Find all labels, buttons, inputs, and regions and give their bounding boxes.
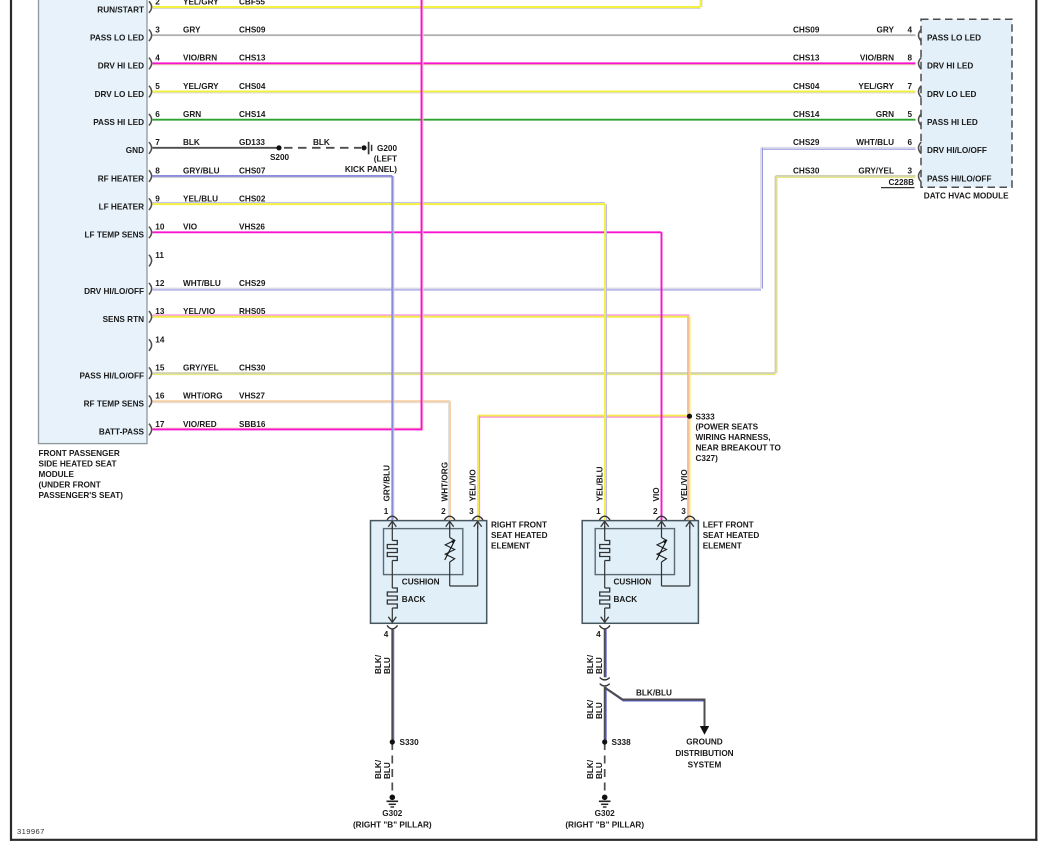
svg-text:BLU: BLU <box>383 657 392 674</box>
svg-text:RHS05: RHS05 <box>239 307 266 316</box>
svg-text:6: 6 <box>155 110 160 119</box>
svg-text:3: 3 <box>907 166 912 175</box>
svg-text:YEL/VIO: YEL/VIO <box>183 307 216 316</box>
svg-text:11: 11 <box>155 251 164 260</box>
svg-text:PASS LO LED: PASS LO LED <box>90 33 144 42</box>
svg-text:BLU: BLU <box>595 657 604 674</box>
svg-text:WHT/BLU: WHT/BLU <box>856 138 894 147</box>
svg-text:BLU: BLU <box>383 762 392 779</box>
svg-text:CHS30: CHS30 <box>239 363 266 372</box>
svg-text:VIO: VIO <box>183 223 198 232</box>
svg-text:CUSHION: CUSHION <box>614 577 652 586</box>
svg-text:VIO/RED: VIO/RED <box>183 420 217 429</box>
svg-text:YEL/BLU: YEL/BLU <box>595 466 604 501</box>
svg-text:GRY/BLU: GRY/BLU <box>383 465 392 502</box>
svg-text:3: 3 <box>469 507 474 516</box>
svg-text:WIRING HARNESS,: WIRING HARNESS, <box>696 433 771 442</box>
svg-text:16: 16 <box>155 392 165 401</box>
svg-text:C228B: C228B <box>889 178 915 187</box>
svg-text:4: 4 <box>907 26 912 35</box>
svg-text:BLK/: BLK/ <box>374 759 383 779</box>
svg-text:SIDE HEATED SEAT: SIDE HEATED SEAT <box>39 460 117 469</box>
svg-text:BLK/: BLK/ <box>586 759 595 779</box>
svg-text:CUSHION: CUSHION <box>402 577 440 586</box>
svg-text:YEL/BLU: YEL/BLU <box>183 195 218 204</box>
svg-text:CHS13: CHS13 <box>793 54 820 63</box>
svg-text:C327): C327) <box>696 454 719 463</box>
svg-text:YEL/GRY: YEL/GRY <box>183 0 219 6</box>
svg-text:PASS LO LED: PASS LO LED <box>927 33 981 42</box>
svg-text:LF HEATER: LF HEATER <box>99 202 144 211</box>
svg-text:RF TEMP SENS: RF TEMP SENS <box>84 400 145 409</box>
svg-text:VHS27: VHS27 <box>239 392 265 401</box>
svg-text:RUN/START: RUN/START <box>97 5 144 14</box>
svg-text:CBF55: CBF55 <box>239 0 265 6</box>
svg-text:CHS29: CHS29 <box>793 138 820 147</box>
svg-text:VHS26: VHS26 <box>239 223 265 232</box>
svg-text:VIO: VIO <box>652 487 661 502</box>
svg-text:CHS09: CHS09 <box>793 26 820 35</box>
svg-text:G302: G302 <box>382 809 402 818</box>
svg-text:3: 3 <box>681 507 686 516</box>
svg-text:DRV HI LED: DRV HI LED <box>927 62 973 71</box>
svg-text:2: 2 <box>155 0 160 6</box>
svg-text:5: 5 <box>907 110 912 119</box>
svg-text:BLK/: BLK/ <box>586 699 595 719</box>
svg-text:DATC HVAC MODULE: DATC HVAC MODULE <box>924 192 1009 201</box>
svg-text:BLU: BLU <box>595 762 604 779</box>
svg-text:(POWER SEATS: (POWER SEATS <box>696 423 759 432</box>
svg-text:1: 1 <box>596 507 601 516</box>
svg-text:BLK: BLK <box>313 138 330 147</box>
svg-text:GRY/YEL: GRY/YEL <box>183 363 219 372</box>
svg-text:CHS09: CHS09 <box>239 26 266 35</box>
svg-text:CHS13: CHS13 <box>239 54 266 63</box>
svg-text:GRY: GRY <box>877 26 895 35</box>
svg-text:(UNDER FRONT: (UNDER FRONT <box>39 481 101 490</box>
svg-text:DRV HI/LO/OFF: DRV HI/LO/OFF <box>84 287 144 296</box>
svg-text:DISTRIBUTION: DISTRIBUTION <box>675 749 733 758</box>
svg-text:2: 2 <box>653 507 658 516</box>
svg-text:SEAT HEATED: SEAT HEATED <box>703 531 760 540</box>
svg-text:GD133: GD133 <box>239 138 265 147</box>
svg-text:4: 4 <box>155 54 160 63</box>
svg-text:(RIGHT "B" PILLAR): (RIGHT "B" PILLAR) <box>565 821 644 830</box>
svg-text:BLK/: BLK/ <box>374 654 383 674</box>
svg-text:S200: S200 <box>270 153 290 162</box>
svg-text:6: 6 <box>907 138 912 147</box>
svg-text:7: 7 <box>155 138 160 147</box>
svg-text:4: 4 <box>596 630 601 639</box>
svg-text:WHT/BLU: WHT/BLU <box>183 279 221 288</box>
svg-text:DRV HI/LO/OFF: DRV HI/LO/OFF <box>927 146 987 155</box>
svg-text:DRV LO LED: DRV LO LED <box>927 90 977 99</box>
svg-text:KICK PANEL): KICK PANEL) <box>345 165 397 174</box>
svg-text:GROUND: GROUND <box>686 738 722 747</box>
svg-text:PASS HI LED: PASS HI LED <box>927 118 978 127</box>
svg-text:(RIGHT "B" PILLAR): (RIGHT "B" PILLAR) <box>353 821 432 830</box>
svg-text:PASS HI/LO/OFF: PASS HI/LO/OFF <box>80 371 144 380</box>
svg-text:319967: 319967 <box>17 827 45 836</box>
svg-text:GRY: GRY <box>183 26 201 35</box>
svg-text:SENS RTN: SENS RTN <box>103 315 144 324</box>
svg-text:BACK: BACK <box>614 595 638 604</box>
svg-text:RF HEATER: RF HEATER <box>98 174 144 183</box>
svg-text:YEL/VIO: YEL/VIO <box>680 469 689 502</box>
svg-text:12: 12 <box>155 279 165 288</box>
svg-text:CHS02: CHS02 <box>239 195 266 204</box>
svg-text:PASS HI LED: PASS HI LED <box>93 118 144 127</box>
svg-text:ELEMENT: ELEMENT <box>703 541 742 550</box>
svg-text:RIGHT FRONT: RIGHT FRONT <box>491 521 547 530</box>
svg-text:4: 4 <box>384 630 389 639</box>
svg-text:BATT-PASS: BATT-PASS <box>99 428 145 437</box>
svg-text:CHS30: CHS30 <box>793 166 820 175</box>
svg-text:PASSENGER'S SEAT): PASSENGER'S SEAT) <box>39 491 124 500</box>
svg-text:BACK: BACK <box>402 595 426 604</box>
svg-text:LEFT FRONT: LEFT FRONT <box>703 521 754 530</box>
svg-text:G302: G302 <box>595 809 615 818</box>
svg-text:BLU: BLU <box>595 702 604 719</box>
svg-text:GRN: GRN <box>876 110 894 119</box>
svg-text:S338: S338 <box>612 738 632 747</box>
svg-text:VIO/BRN: VIO/BRN <box>860 54 894 63</box>
svg-text:15: 15 <box>155 363 165 372</box>
svg-text:10: 10 <box>155 223 165 232</box>
svg-text:S333: S333 <box>696 412 716 421</box>
svg-text:S330: S330 <box>400 738 420 747</box>
svg-text:14: 14 <box>155 335 165 344</box>
svg-text:SYSTEM: SYSTEM <box>688 761 722 770</box>
svg-text:8: 8 <box>907 54 912 63</box>
svg-text:ELEMENT: ELEMENT <box>491 541 530 550</box>
svg-text:CHS29: CHS29 <box>239 279 266 288</box>
svg-text:CHS07: CHS07 <box>239 166 266 175</box>
svg-text:PASS HI/LO/OFF: PASS HI/LO/OFF <box>927 174 991 183</box>
svg-text:YEL/GRY: YEL/GRY <box>183 82 219 91</box>
svg-text:CHS04: CHS04 <box>239 82 266 91</box>
svg-text:SBB16: SBB16 <box>239 420 266 429</box>
svg-text:GRY/YEL: GRY/YEL <box>858 166 894 175</box>
svg-text:BLK: BLK <box>183 138 200 147</box>
svg-text:WHT/ORG: WHT/ORG <box>440 462 449 502</box>
svg-text:GRY/BLU: GRY/BLU <box>183 166 220 175</box>
svg-text:YEL/GRY: YEL/GRY <box>858 82 894 91</box>
svg-text:DRV HI LED: DRV HI LED <box>98 62 144 71</box>
svg-text:2: 2 <box>441 507 446 516</box>
svg-text:BLK/: BLK/ <box>586 654 595 674</box>
svg-text:VIO/BRN: VIO/BRN <box>183 54 217 63</box>
svg-text:5: 5 <box>155 82 160 91</box>
svg-text:SEAT HEATED: SEAT HEATED <box>491 531 548 540</box>
svg-text:WHT/ORG: WHT/ORG <box>183 392 223 401</box>
svg-text:MODULE: MODULE <box>39 470 75 479</box>
svg-text:NEAR BREAKOUT TO: NEAR BREAKOUT TO <box>696 444 782 453</box>
svg-text:(LEFT: (LEFT <box>374 155 397 164</box>
svg-text:LF TEMP SENS: LF TEMP SENS <box>85 231 145 240</box>
svg-text:7: 7 <box>907 82 912 91</box>
svg-text:CHS04: CHS04 <box>793 82 820 91</box>
svg-text:BLK/BLU: BLK/BLU <box>636 688 672 697</box>
svg-text:13: 13 <box>155 307 165 316</box>
svg-text:FRONT PASSENGER: FRONT PASSENGER <box>39 449 120 458</box>
svg-text:9: 9 <box>155 195 160 204</box>
svg-text:CHS14: CHS14 <box>239 110 266 119</box>
svg-text:YEL/VIO: YEL/VIO <box>468 469 477 502</box>
svg-text:CHS14: CHS14 <box>793 110 820 119</box>
svg-text:DRV LO LED: DRV LO LED <box>95 90 145 99</box>
svg-text:17: 17 <box>155 420 165 429</box>
svg-text:3: 3 <box>155 26 160 35</box>
svg-text:1: 1 <box>384 507 389 516</box>
svg-text:8: 8 <box>155 166 160 175</box>
svg-text:GRN: GRN <box>183 110 201 119</box>
svg-text:GND: GND <box>126 146 144 155</box>
svg-text:G200: G200 <box>377 144 397 153</box>
